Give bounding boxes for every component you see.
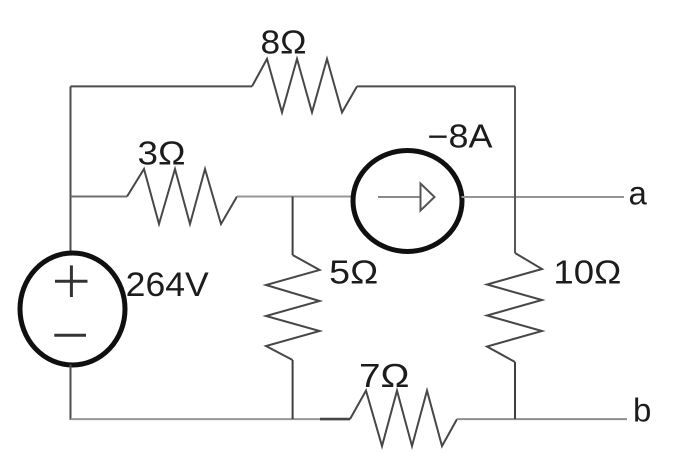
wire right rail upper vertical [514, 86, 516, 253]
current source I1 circle [353, 151, 462, 252]
resistor R4 10ohm vertical zigzag [487, 253, 542, 362]
wire top-right horizontal [357, 85, 515, 87]
resistor R3 5ohm vertical zigzag [266, 255, 320, 360]
svg-text:8Ω: 8Ω [261, 24, 307, 61]
svg-text:a: a [629, 175, 648, 212]
wire middle-right horizontal to node a [462, 196, 625, 198]
wire 5ohm branch lower vertical [292, 360, 294, 419]
svg-text:10Ω: 10Ω [553, 254, 621, 291]
svg-text:−8A: −8A [428, 118, 493, 155]
wire bottom dark segment before 7ohm [320, 418, 350, 421]
wire left rail upper vertical [70, 86, 72, 254]
svg-text:264V: 264V [126, 266, 209, 304]
wire top-left horizontal [71, 85, 253, 87]
resistor R1 8ohm zigzag [252, 59, 357, 113]
wire left rail lower vertical [70, 365, 72, 421]
svg-text:3Ω: 3Ω [138, 134, 186, 171]
current source arrow shaft [378, 196, 421, 198]
wire middle-left stub [71, 196, 128, 198]
resistor R2 3ohm zigzag [127, 169, 237, 224]
wire bottom-left horizontal [71, 418, 321, 420]
wire 5ohm branch upper vertical [292, 197, 294, 256]
svg-text:b: b [633, 392, 651, 429]
voltage source V1 circle [20, 253, 125, 365]
voltage source minus sign [54, 334, 86, 337]
current source arrow head triangle [421, 184, 435, 211]
wire middle center horizontal [237, 196, 353, 198]
svg-text:7Ω: 7Ω [359, 357, 410, 394]
wire bottom-right horizontal to node b [457, 418, 627, 420]
voltage source plus sign [55, 265, 88, 297]
svg-text:5Ω: 5Ω [329, 254, 378, 291]
wire right rail lower vertical [514, 362, 516, 419]
resistor R5 7ohm zigzag [350, 391, 457, 447]
